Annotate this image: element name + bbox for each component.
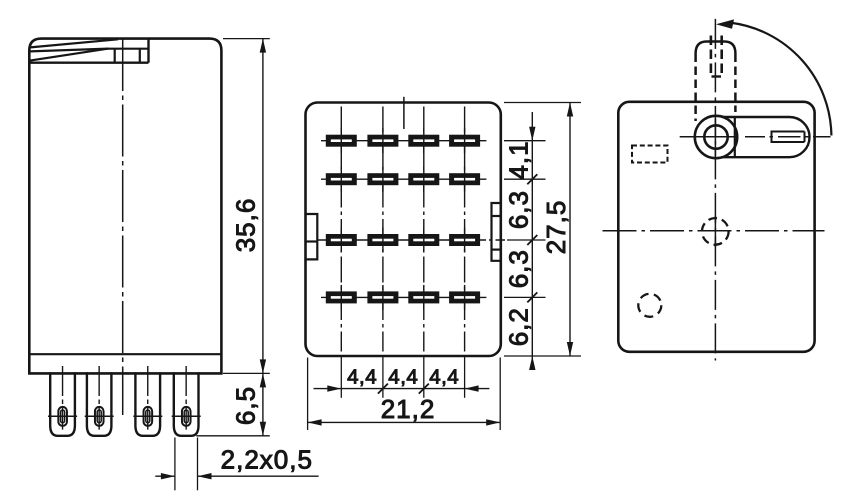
column pitch dimension line xyxy=(314,388,490,390)
pin 3 slot xyxy=(144,407,153,426)
swing arrowhead xyxy=(716,19,734,28)
test lever up position: solid top arc xyxy=(696,42,736,54)
left clip notch xyxy=(306,214,318,259)
lever slot left edge (dashed) xyxy=(710,36,713,78)
latch wedge bottom line xyxy=(29,62,148,64)
pin 2 slot xyxy=(95,407,104,426)
svg-text:2,2x0,5: 2,2x0,5 xyxy=(221,444,313,474)
latch diagonal 3 xyxy=(30,49,109,61)
21,2 extension left xyxy=(307,358,309,431)
relay body (side view) xyxy=(618,102,814,352)
row pitch dimension line xyxy=(531,112,533,368)
latch wedge mid line xyxy=(109,48,149,50)
side view vertical centerline xyxy=(714,19,716,361)
svg-text:21,2: 21,2 xyxy=(381,394,436,424)
column extension 3 xyxy=(423,357,425,398)
dimension 6,5 line xyxy=(262,374,264,436)
bottom plate line xyxy=(29,353,221,355)
pin 1 (front) xyxy=(50,372,75,436)
slash tick row4 xyxy=(527,292,537,302)
right dimension extension row4 xyxy=(504,296,546,298)
pin 4 centerline xyxy=(185,366,187,430)
slash tick col2 xyxy=(378,384,388,394)
test lever right edge (dashed) xyxy=(734,54,737,113)
dimension 21,2 line xyxy=(308,421,500,423)
pivot horizontal centerline xyxy=(680,136,831,138)
relay body (front view) xyxy=(29,39,221,374)
dimension 6,5 extension xyxy=(196,435,269,437)
pin 1 slot xyxy=(58,407,67,426)
lower hole (dashed circle) xyxy=(638,294,661,317)
pin 2 (front) xyxy=(87,372,112,436)
slash tick row3 xyxy=(527,235,537,245)
pin 4 cross line xyxy=(172,415,201,417)
slash tick row2 xyxy=(527,174,537,184)
row centerline 3 xyxy=(318,239,505,241)
dimension 35,6 line xyxy=(262,39,264,373)
right dimension extension row1 xyxy=(504,140,546,142)
column row ticks xyxy=(341,128,464,310)
top edge extension right xyxy=(504,102,581,104)
svg-text:6,5: 6,5 xyxy=(230,386,260,425)
top center tick xyxy=(403,97,405,129)
column centerline 3 xyxy=(423,107,425,352)
row centerline 2 xyxy=(321,178,486,180)
dimension 27,5 line xyxy=(569,103,571,356)
dimension 35,6 extension top xyxy=(223,38,270,40)
dimension 2,2x0,5 line right with arrow xyxy=(198,475,319,477)
test lever left edge (dashed) xyxy=(694,54,697,122)
svg-text:6,3: 6,3 xyxy=(504,249,534,288)
bottom edge extension right xyxy=(504,355,581,357)
marking rectangle (dashed) xyxy=(632,146,668,163)
row centerline 4 xyxy=(321,296,486,298)
latch wedge vertical xyxy=(147,39,149,63)
column centerline 1 xyxy=(340,107,342,352)
lever grip slot xyxy=(772,132,805,143)
svg-text:4,4: 4,4 xyxy=(429,365,459,388)
svg-text:35,6: 35,6 xyxy=(230,198,260,253)
pin contacts grid xyxy=(327,136,479,303)
svg-text:6,2: 6,2 xyxy=(504,307,534,346)
column centerline 4 xyxy=(464,107,466,352)
pin 1 centerline xyxy=(62,366,64,430)
column centerline 2 xyxy=(382,107,384,352)
pin 3 centerline xyxy=(147,366,149,430)
latch wedge divider a xyxy=(114,49,116,63)
column extension 4 xyxy=(464,357,466,398)
pivot outer circle xyxy=(695,116,737,158)
svg-text:4,4: 4,4 xyxy=(388,365,418,388)
right clip notch xyxy=(492,203,501,261)
dimension 2,2x0,5 line left with arrow xyxy=(155,475,175,477)
svg-text:4,1: 4,1 xyxy=(504,140,534,179)
pin 4 (front) xyxy=(174,372,199,436)
svg-text:6,3: 6,3 xyxy=(504,190,534,229)
right dimension extension row3 xyxy=(507,239,546,241)
swing arc xyxy=(730,23,831,136)
dimension 35,6 extension bottom xyxy=(223,372,270,374)
lever slot bottom (dash) xyxy=(712,75,722,77)
center hole (dashed circle) xyxy=(702,218,729,245)
column extension 2 xyxy=(382,357,384,398)
pin 4 slot xyxy=(182,407,191,426)
svg-text:4,4: 4,4 xyxy=(347,365,377,388)
dimension 2,2x0,5 extension right xyxy=(197,438,199,491)
latch diagonal 2 xyxy=(30,49,108,52)
slash tick col3 xyxy=(419,384,429,394)
column extension 1 xyxy=(340,357,342,398)
21,2 extension right xyxy=(499,358,501,431)
pivot inner circle xyxy=(704,125,727,148)
latch wedge divider b xyxy=(139,49,141,63)
dimension 2,2x0,5 extension left xyxy=(174,438,176,491)
pin 2 cross line xyxy=(85,415,114,417)
lever slot right edge (dashed) xyxy=(720,36,723,78)
pin 3 cross line xyxy=(133,415,162,417)
front view centerline xyxy=(122,39,124,415)
lever arm neck line xyxy=(734,117,736,157)
svg-text:27,5: 27,5 xyxy=(541,200,571,255)
lever arm (horizontal, solid) xyxy=(721,117,810,157)
latch diagonal 1 xyxy=(30,39,118,47)
right dimension extension row2 xyxy=(504,178,546,180)
pin 1 cross line xyxy=(48,415,77,417)
pin 2 centerline xyxy=(98,366,100,430)
row centerline 1 xyxy=(321,140,486,142)
relay body (bottom view) xyxy=(306,103,501,357)
body horizontal centerline xyxy=(603,230,825,232)
pin 3 (front) xyxy=(135,372,160,436)
